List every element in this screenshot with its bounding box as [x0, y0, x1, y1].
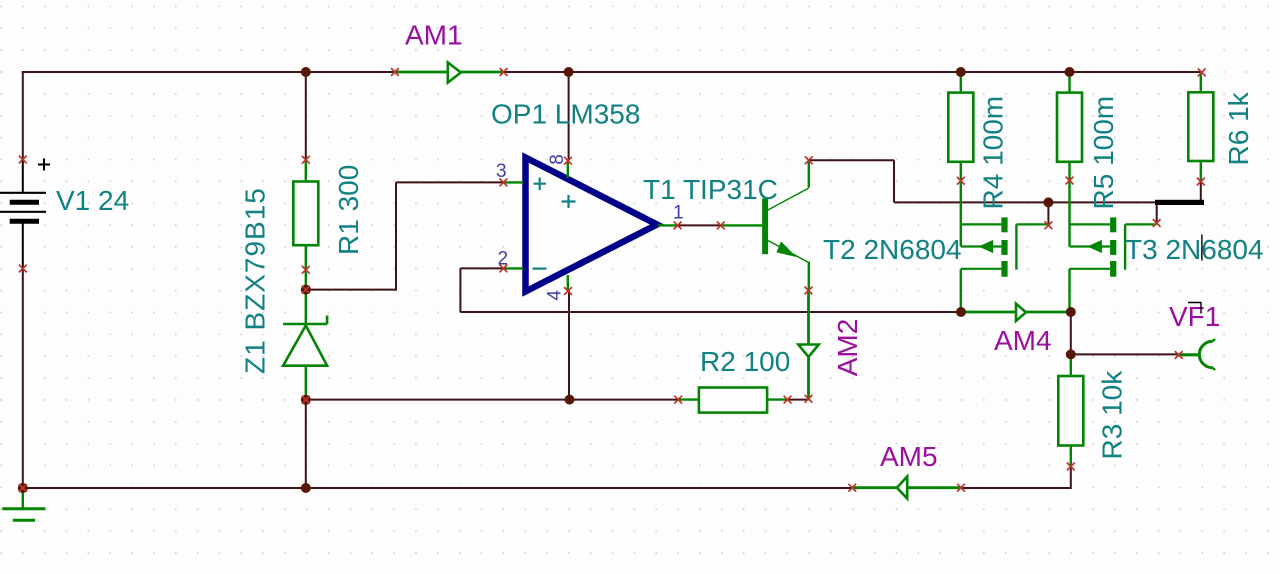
svg-text:T2 2N6804: T2 2N6804: [823, 234, 962, 265]
svg-text:AM1: AM1: [405, 19, 463, 50]
caret in T3 label: [1201, 235, 1203, 261]
pin cross marks: [19, 68, 1206, 492]
svg-text:R2 100: R2 100: [700, 346, 790, 377]
resistor R5: [1057, 72, 1082, 181]
resistor R4: [948, 72, 973, 181]
wire node B right to R2: [306, 399, 678, 401]
svg-text:AM2: AM2: [832, 319, 863, 377]
ammeter AM5: [852, 477, 961, 499]
wire AM4 right drop to node D: [1070, 312, 1072, 354]
voltage probe VF1: [1179, 339, 1216, 370]
wire op-amp pin 8 from top rail: [568, 72, 570, 161]
resistor R3: [1058, 354, 1083, 466]
resistor R6: [1188, 72, 1213, 182]
wire bottom rail right of AM5: [961, 467, 1072, 490]
svg-text:AM4: AM4: [994, 325, 1052, 356]
MOSFET T3: [1070, 181, 1157, 313]
caret near VF1: [1188, 302, 1202, 313]
ammeter AM4: [961, 304, 1071, 321]
wire R6 bottom stub to black bar: [1200, 182, 1202, 203]
wire R1 top lead: [305, 72, 307, 160]
zener diode Z1: [283, 290, 327, 400]
svg-text:3: 3: [496, 161, 507, 182]
ammeter AM1: [395, 62, 504, 82]
svg-text:OP1 LM358: OP1 LM358: [491, 99, 640, 130]
svg-text:R5 100m: R5 100m: [1088, 96, 1119, 210]
svg-text:Z1 BZX79B15: Z1 BZX79B15: [240, 187, 271, 374]
resistor R1: [293, 160, 318, 290]
wire feedback: pin 2 left, down, right to AM4: [460, 268, 961, 312]
svg-text:R1 300: R1 300: [333, 165, 364, 255]
wire top rail: [22, 71, 1202, 73]
resistor R2: [678, 388, 787, 413]
ammeter AM2: [798, 291, 818, 399]
wire left rail lower (V1 bottom to ground): [22, 269, 24, 489]
wire op-amp pin 4 drop: [568, 291, 570, 400]
op-amp OP1: [503, 158, 677, 292]
svg-text:R6 1k: R6 1k: [1223, 91, 1254, 165]
wire bottom rail: [22, 487, 853, 489]
svg-text:4: 4: [545, 290, 566, 301]
transistor T1: [721, 160, 810, 290]
wire left rail upper (V1 top lead): [22, 71, 24, 160]
svg-text:R4 100m: R4 100m: [978, 96, 1009, 210]
svg-text:T1 TIP31C: T1 TIP31C: [643, 174, 778, 205]
svg-text:VF1: VF1: [1169, 301, 1220, 332]
wire node D to VF1: [1071, 353, 1179, 355]
svg-text:T3 2N6804: T3 2N6804: [1125, 234, 1264, 265]
thick black net segment: [1155, 200, 1204, 205]
wire T1 collector net to gates: [809, 160, 1156, 202]
wire R2 right to AM2 bottom: [788, 399, 809, 401]
battery V1: [0, 159, 50, 269]
wire T3 gate stub: [1156, 202, 1158, 223]
svg-text:AM5: AM5: [880, 441, 938, 472]
wire node A to op-amp pin 3: [306, 182, 504, 290]
svg-text:1: 1: [673, 203, 684, 224]
wire T2 gate stub: [1047, 202, 1049, 225]
wire op-amp pin 1 to T1 base: [678, 224, 721, 226]
svg-text:V1 24: V1 24: [56, 185, 129, 216]
svg-text:R3 10k: R3 10k: [1097, 370, 1128, 460]
MOSFET T2: [961, 181, 1049, 312]
ground: [2, 488, 45, 520]
wire node B down to bottom rail: [305, 400, 307, 488]
